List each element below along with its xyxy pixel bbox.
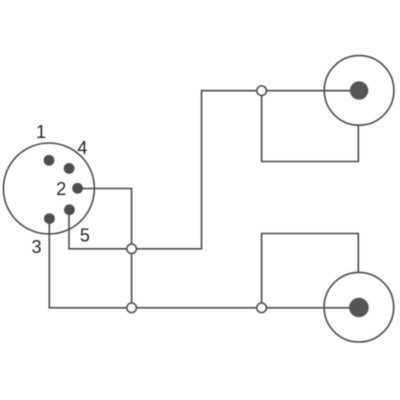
- node junction D: [257, 303, 267, 313]
- node junction A: [127, 244, 137, 254]
- wire pin2 to vertical bus down to bottom bus: [78, 189, 132, 308]
- wire junction D up-right-down to bottom RCA shield: [262, 234, 359, 308]
- pin 1 contact: [44, 155, 55, 166]
- RCA plug P2 tip: [349, 298, 369, 318]
- wire pin3 down and right along bottom bus to bottom RCA tip: [49, 218, 359, 308]
- node junction B: [127, 303, 137, 313]
- wire junction C down-right-up to top RCA shield: [262, 91, 359, 162]
- RCA plug P2 body: [324, 272, 394, 342]
- RCA plug P1 body: [324, 56, 394, 126]
- svg-text:4: 4: [77, 138, 87, 158]
- pin 5 contact: [64, 204, 75, 215]
- RCA plug P1 tip: [350, 81, 368, 99]
- DIN connector body J1: [3, 143, 94, 234]
- node junction C: [257, 86, 267, 96]
- pin 4 contact: [64, 163, 75, 174]
- svg-text:2: 2: [56, 179, 66, 199]
- pin 2 contact: [72, 183, 83, 194]
- svg-text:3: 3: [31, 237, 41, 257]
- svg-text:5: 5: [80, 226, 90, 246]
- svg-text:1: 1: [36, 122, 46, 142]
- pin 3 contact: [44, 213, 55, 224]
- wire pin5 down, right, up, right to top RCA tip: [69, 91, 359, 249]
